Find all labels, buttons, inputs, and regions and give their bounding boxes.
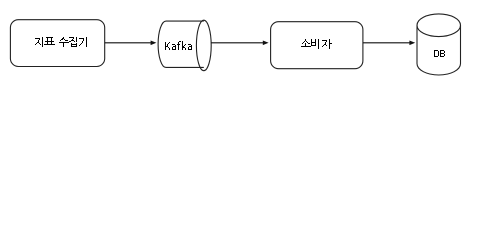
wire: Kafka to consumer — [211, 42, 263, 44]
DB cylinder — [417, 25, 461, 75]
arrowhead into Kafka — [151, 41, 157, 46]
arrowhead into consumer — [263, 41, 269, 46]
wire: collector to Kafka — [105, 42, 152, 44]
label 지표 수집기 (pixel text) — [35, 37, 87, 47]
box: consumer (소비자) — [271, 22, 363, 69]
DB top ellipse — [417, 14, 461, 37]
label Kafka (pixel text) — [165, 41, 192, 50]
Kafka right ellipse — [196, 20, 211, 70]
label 소비자 (pixel text) — [301, 39, 332, 49]
wire: consumer to DB — [363, 42, 410, 44]
label DB (pixel text) — [434, 50, 445, 57]
Kafka queue cylinder — [158, 21, 204, 67]
box: metric collector (지표 수집기) — [10, 20, 104, 67]
arrowhead into DB — [409, 41, 415, 46]
